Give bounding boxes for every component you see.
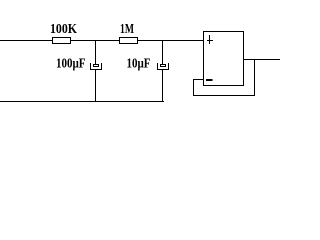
node B: junction between R2 and op-amp input, wire down to C2 <box>162 41 164 65</box>
capacitor C1 bottom cup plate <box>91 63 102 70</box>
wire: op-amp output line to right edge <box>244 59 281 61</box>
wire: main input line from left edge to op-amp non-inverting input <box>0 40 204 42</box>
resistor R1 body (100K) <box>53 38 71 44</box>
svg-text:100K: 100K <box>50 22 77 37</box>
resistor R2 body (1M) <box>120 38 138 44</box>
svg-text:1M: 1M <box>120 22 134 37</box>
wire: C1 bottom lead to common rail <box>95 70 97 102</box>
op-amp U1 minus (inverting) pin mark <box>206 79 213 81</box>
op-amp U1 body <box>204 32 244 86</box>
svg-text:10µF: 10µF <box>127 57 151 72</box>
svg-text:100µF: 100µF <box>56 57 86 72</box>
op-amp U1 plus (non-inverting) pin mark <box>207 35 213 44</box>
wire: C2 bottom lead to common rail <box>162 70 164 102</box>
capacitor C2 top plate <box>161 65 166 67</box>
capacitor C2 bottom cup plate <box>158 63 169 70</box>
node A: junction between R1 and R2, wire down to C1 <box>95 41 97 65</box>
wire: bottom common rail <box>0 101 164 103</box>
capacitor C1 top plate <box>94 65 99 67</box>
wire: feedback loop from output to inverting input <box>194 60 255 96</box>
